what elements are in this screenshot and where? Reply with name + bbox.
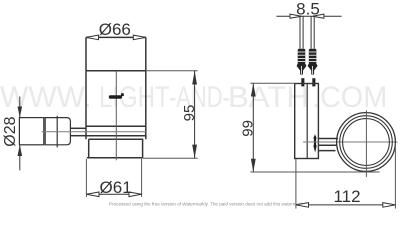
- dim O28 line: [19, 97, 21, 118]
- svg-text:Ø61: Ø61: [100, 178, 132, 197]
- wall plate (side): [295, 84, 319, 159]
- arrow 8.5 left: [290, 14, 301, 18]
- svg-text:95: 95: [181, 105, 198, 122]
- arrow O61 right: [129, 192, 142, 197]
- arrow 99 top: [251, 83, 256, 96]
- wall plate (front): [19, 118, 43, 145]
- dim 112 ext left: [295, 159, 297, 209]
- logo mark: [109, 93, 124, 98]
- arrow O66 left: [86, 35, 99, 40]
- cup right edge: [145, 37, 147, 139]
- holder bottom line: [89, 138, 144, 140]
- arm bottom line: [318, 150, 335, 152]
- band upper line: [86, 125, 146, 127]
- cup bottom edge: [87, 157, 143, 159]
- cup top edge / dim line O66: [86, 36, 146, 38]
- arrow 99 bottom: [251, 159, 256, 172]
- arrow O61 left: [86, 192, 99, 197]
- svg-text:112: 112: [333, 187, 360, 206]
- cup left edge: [85, 37, 87, 139]
- rod top: [70, 127, 86, 129]
- dim 112 line: [296, 204, 396, 206]
- ring inner circle: [343, 119, 390, 166]
- anchor R: [308, 49, 318, 87]
- watermark bottom: [109, 202, 303, 207]
- arrow 112 right: [383, 203, 396, 208]
- arrow O28 bottom: [18, 145, 23, 156]
- ring outer circle: [337, 113, 396, 172]
- rod bottom: [70, 135, 86, 137]
- band lower line: [86, 135, 146, 137]
- rod horizontal centerline: [42, 131, 146, 133]
- svg-text:Ø28: Ø28: [2, 116, 19, 146]
- dim 99 ext top: [250, 82, 294, 84]
- ring middle circle: [340, 116, 393, 169]
- arrow O66 right: [133, 35, 146, 40]
- dim 8.5 line: [276, 15, 341, 17]
- svg-text:Ø66: Ø66: [99, 20, 131, 39]
- dim O61 line: [86, 193, 141, 195]
- screw L shank: [299, 16, 301, 49]
- dim 95 extension bottom: [143, 157, 198, 159]
- dim O61 extension right: [141, 159, 143, 197]
- arm top line: [318, 138, 338, 140]
- ring vertical centerline: [365, 110, 367, 177]
- hub inner line: [56, 116, 58, 148]
- plate inner line: [306, 84, 308, 159]
- dim 95 extension top: [146, 70, 198, 72]
- cup bottom left wall: [88, 139, 90, 158]
- arrow O28 top: [18, 107, 23, 118]
- center line: [115, 71, 117, 161]
- dim 95 line: [194, 71, 196, 159]
- dim 112 ext right: [394, 143, 396, 209]
- holder rim line: [86, 70, 146, 72]
- arrow 8.5 right: [313, 14, 324, 18]
- arrow 95 bottom: [192, 145, 197, 159]
- cup bottom right wall: [142, 139, 144, 158]
- dim 99 line: [252, 83, 254, 172]
- anchor L: [297, 49, 307, 87]
- dim O61 extension left: [85, 159, 87, 197]
- svg-text:99: 99: [240, 120, 257, 137]
- arm mid line: [318, 144, 337, 146]
- mounting hub: [45, 118, 70, 145]
- arrow 95 top: [192, 71, 197, 85]
- screw R shank: [310, 16, 312, 49]
- arrow 112 left: [296, 203, 309, 208]
- dim 99 ext bottom: [250, 171, 379, 173]
- svg-text:8.5: 8.5: [296, 0, 320, 18]
- fixing screw in plate: [313, 134, 317, 152]
- arm centerline: [303, 141, 398, 143]
- watermark main: [0, 83, 92, 113]
